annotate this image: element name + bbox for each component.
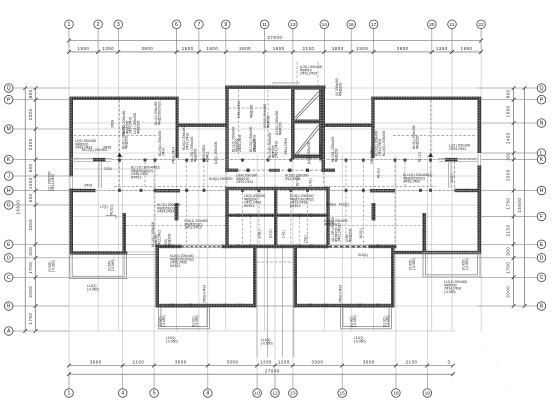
beam end columns [118, 159, 432, 307]
label stair strip d [237, 101, 241, 118]
label L12 center [261, 338, 273, 345]
label L10 stair strip f [275, 111, 282, 135]
label L1 right unit [450, 174, 454, 182]
svg-text:1: 1 [68, 22, 71, 28]
svg-text:(-0.050): (-0.050) [261, 341, 273, 345]
svg-text:2400: 2400 [505, 132, 510, 144]
label KL8(1) left room [170, 254, 194, 268]
svg-text:5: 5 [153, 391, 156, 397]
svg-text:1800: 1800 [206, 46, 218, 51]
label balcony B1 b [108, 259, 115, 271]
wall right room south [294, 304, 395, 308]
svg-text:1750: 1750 [505, 198, 510, 210]
svg-text:27600: 27600 [265, 369, 280, 374]
svg-text:13: 13 [290, 22, 296, 28]
svg-text:3Φ18: 3Φ18 [111, 120, 115, 128]
svg-text:2Φ14: 2Φ14 [161, 148, 165, 156]
label KL3 col3 [122, 110, 133, 134]
svg-text:2Φ12,2Φ12: 2Φ12,2Φ12 [158, 230, 162, 247]
label KL9 right band [324, 219, 348, 226]
svg-text:L4(1): L4(1) [282, 230, 286, 238]
label 2phi18 K [104, 167, 112, 171]
label KL14 rot right [331, 217, 342, 242]
svg-text:3300: 3300 [28, 219, 33, 231]
svg-text:N2Φ12: N2Φ12 [290, 204, 301, 208]
svg-text:L4(1): L4(1) [309, 178, 313, 186]
label KL14 rot left [151, 222, 162, 247]
svg-text:KL7(1): KL7(1) [296, 176, 300, 186]
svg-text:KL4(1): KL4(1) [377, 168, 381, 178]
svg-text:22: 22 [478, 22, 484, 28]
label L8 rot r [307, 141, 311, 164]
label stair strip b [253, 139, 257, 152]
label L5 corridor a [258, 230, 262, 238]
svg-text:Φ8@200: Φ8@200 [125, 136, 129, 149]
svg-text:6: 6 [175, 22, 178, 28]
svg-text:1950: 1950 [461, 46, 473, 51]
dashed beam L1 right [454, 161, 456, 188]
svg-text:(L8(1) 200x300: (L8(1) 200x300 [307, 141, 311, 164]
svg-text:KL8(1): KL8(1) [358, 253, 368, 257]
dimension ticks [23, 39, 526, 377]
svg-text:15: 15 [340, 391, 346, 397]
wall top-left exterior [70, 97, 179, 101]
svg-text:F: F [540, 214, 543, 220]
label 240 rot right [345, 229, 352, 242]
label KL7 H-row mid a [296, 176, 300, 186]
svg-text:2300: 2300 [28, 138, 33, 150]
svg-text:(-0.060): (-0.060) [412, 258, 416, 270]
svg-text:(-0.050): (-0.050) [354, 339, 366, 343]
label KL12 K-row left [82, 148, 107, 152]
svg-text:KL16(1) 200x300: KL16(1) 200x300 [382, 131, 386, 156]
label stair strip e [250, 105, 254, 118]
svg-text:KL1(1): KL1(1) [418, 152, 422, 162]
svg-text:(L8(1) 200x300: (L8(1) 200x300 [214, 141, 218, 164]
pier K-row right [445, 158, 458, 162]
svg-text:600: 600 [28, 193, 33, 202]
svg-text:2100: 2100 [132, 360, 144, 365]
label L12 balcony right [354, 336, 366, 343]
svg-text:2600: 2600 [239, 46, 251, 51]
svg-text:16600: 16600 [16, 200, 21, 215]
svg-text:L1(1): L1(1) [450, 174, 454, 182]
svg-text:1: 1 [68, 391, 71, 397]
svg-text:2Φ16,2Φ20: 2Φ16,2Φ20 [319, 145, 323, 162]
label stair strip c [284, 138, 288, 155]
svg-text:2Φ14,2Φ16: 2Φ14,2Φ16 [238, 135, 242, 152]
label KL10 rot br [319, 145, 323, 162]
label KL10 stair-left b [249, 127, 256, 152]
label L6(4) mid-left [236, 174, 257, 185]
svg-text:1950: 1950 [78, 46, 90, 51]
window gap E-row right [329, 245, 369, 249]
label L1 col6 [182, 126, 189, 150]
label balcony B2 a [159, 315, 166, 327]
svg-text:Φ8@200: Φ8@200 [167, 234, 171, 247]
svg-text:2Φ18,2Φ20: 2Φ18,2Φ20 [403, 180, 420, 184]
svg-text:2100: 2100 [303, 46, 315, 51]
svg-text:8: 8 [206, 391, 209, 397]
svg-text:E: E [540, 242, 544, 248]
svg-text:(-0.050): (-0.050) [195, 315, 199, 327]
wall D-row right [393, 251, 482, 254]
label KL5 rot right room [359, 228, 363, 238]
label KL14 stair [268, 133, 279, 158]
window gap E-row left [182, 245, 222, 249]
wall plateau left vertical [225, 86, 228, 172]
svg-text:、: 、 [480, 348, 485, 354]
dashed beam lines [73, 62, 477, 262]
wall D-row left [70, 251, 128, 254]
svg-text:Φ8@200: Φ8@200 [193, 149, 197, 162]
svg-text:P: P [540, 97, 544, 103]
svg-text:Φ8Φ200: Φ8Φ200 [266, 115, 270, 128]
svg-text:KL12(1) 200x300: KL12(1) 200x300 [82, 148, 107, 152]
label KL9(1) mid [290, 194, 314, 208]
svg-text:Φ8@100/200(3): Φ8@100/200(3) [157, 101, 161, 125]
label balcony B3 a [350, 315, 357, 327]
label 2phi18 rot r [370, 147, 374, 164]
svg-text:2000: 2000 [505, 169, 510, 181]
svg-text:14: 14 [322, 22, 328, 28]
svg-text:1700: 1700 [28, 313, 33, 325]
svg-text:B: B [540, 304, 544, 310]
svg-text:(-0.060): (-0.060) [51, 260, 55, 272]
svg-text:(-0.060): (-0.060) [465, 258, 469, 270]
corridor lines between rooms [99, 161, 451, 357]
svg-text:D: D [7, 256, 11, 262]
svg-text:Φ8@200: Φ8@200 [250, 105, 254, 118]
svg-text:3600: 3600 [90, 360, 102, 365]
label KL10 rot ar [331, 137, 338, 162]
svg-text:KL8(±): KL8(±) [326, 203, 336, 207]
svg-text:3600: 3600 [175, 360, 187, 365]
svg-text:300x350: 300x350 [253, 139, 257, 152]
wall step right vertical [371, 97, 374, 159]
label KL8 tiny right [326, 203, 336, 207]
wall mid-band center vertical [274, 187, 277, 248]
wall pier right (18) [422, 213, 426, 254]
wall mid-band shelf [225, 214, 329, 217]
svg-text:2Φ18: 2Φ18 [84, 184, 92, 188]
label L12 balcony left [166, 336, 178, 343]
label 2phi18 rot [172, 147, 176, 164]
svg-text:600: 600 [28, 163, 33, 172]
svg-text:2000: 2000 [505, 286, 510, 298]
svg-text:2Φ14,2Φ16: 2Φ14,2Φ16 [237, 101, 241, 118]
wall right room east [391, 245, 395, 308]
svg-text:Q: Q [539, 86, 543, 92]
svg-text:丶: 丶 [522, 248, 527, 254]
beam L6 blocks [246, 169, 309, 172]
wall E-row long [156, 245, 397, 248]
svg-text:16600: 16600 [517, 198, 522, 213]
svg-text:J: J [7, 174, 10, 180]
wall top-right exterior [371, 97, 481, 101]
svg-text:Φ8@200: Φ8@200 [348, 229, 352, 242]
wall plateau right vertical [322, 86, 325, 172]
svg-text:H: H [7, 188, 11, 194]
dimension numbers [16, 35, 522, 374]
svg-text:1900: 1900 [273, 46, 285, 51]
svg-text:P: P [7, 97, 11, 103]
svg-text:800: 800 [28, 89, 33, 98]
svg-text:2Φ14,2Φ18: 2Φ14,2Φ18 [284, 138, 288, 155]
svg-text:C: C [7, 275, 11, 281]
svg-text:2000: 2000 [28, 108, 33, 120]
label balcony B1 a [48, 260, 55, 272]
wall H-row piece d [455, 189, 479, 192]
label L3(1) top [300, 65, 323, 76]
svg-text:。: 。 [508, 384, 513, 390]
svg-text:7: 7 [197, 22, 200, 28]
label KL16 rot [158, 131, 165, 156]
svg-text:17: 17 [371, 22, 377, 28]
svg-text:L5(1): L5(1) [258, 230, 262, 238]
svg-text:300: 300 [505, 247, 510, 256]
svg-text:K: K [7, 157, 11, 163]
svg-text:KL8(1) 200x300: KL8(1) 200x300 [209, 177, 233, 181]
svg-text:Φ8@200: Φ8@200 [415, 136, 419, 149]
label KL5 left [110, 205, 114, 215]
label L4 corridor c [282, 230, 286, 238]
svg-text:(-0.050): (-0.050) [162, 315, 166, 327]
label balcony B2 b [192, 315, 199, 327]
svg-text:C: C [540, 275, 544, 281]
wall right room west [294, 245, 298, 308]
svg-text:13: 13 [290, 391, 296, 397]
svg-text:(-0.060): (-0.060) [111, 259, 115, 271]
svg-text:1200: 1200 [260, 360, 272, 365]
label KL6(1) right [339, 203, 349, 207]
svg-text:R4Φ12: R4Φ12 [131, 175, 142, 179]
svg-text:Φ8Φ200(2): Φ8Φ200(2) [324, 222, 341, 226]
beam line y169 left [71, 168, 135, 170]
wall pier left (4) [122, 213, 126, 254]
svg-text:KL5(1): KL5(1) [359, 228, 363, 238]
label 3phi18 [103, 146, 111, 150]
svg-text:1350: 1350 [436, 46, 448, 51]
balcony bottom-right (L12) [341, 307, 392, 329]
label L4 H-row mid b [309, 178, 313, 186]
label L10 stair strip a [263, 104, 270, 128]
staircase flights [294, 90, 319, 157]
svg-text:、: 、 [487, 401, 492, 407]
label L8 rot [214, 141, 218, 164]
label KL4 rot col18 [412, 125, 419, 149]
label KL10 rot a [190, 137, 197, 162]
wall notch left horizontal [176, 124, 229, 128]
svg-text:N: N [540, 121, 544, 127]
svg-text:(-0.050): (-0.050) [386, 315, 390, 327]
label L12 lower-right [444, 280, 467, 294]
wall pier right small [372, 203, 376, 221]
label KL16 rot r [382, 131, 386, 156]
svg-text:27600: 27600 [268, 35, 283, 40]
label 2phi18 H [84, 184, 92, 188]
svg-text:2Φ14,2Φ15: 2Φ14,2Φ15 [129, 117, 133, 134]
svg-text:300: 300 [28, 247, 33, 256]
svg-text:1500: 1500 [182, 46, 194, 51]
svg-text:3300: 3300 [227, 360, 239, 365]
svg-text:3300: 3300 [312, 360, 324, 365]
dimension lines [25, 41, 524, 375]
svg-text:2Φ18,2Φ14: 2Φ18,2Φ14 [172, 147, 176, 164]
svg-text:(-0.050): (-0.050) [166, 339, 178, 343]
svg-text:L7(1): L7(1) [100, 205, 108, 209]
svg-text:1500: 1500 [356, 46, 368, 51]
label KL8(1) right room [358, 253, 368, 257]
wall top middle plateau [225, 86, 326, 89]
svg-text:N2Φ12: N2Φ12 [244, 204, 255, 208]
label balcony B4 a [409, 258, 416, 270]
label KL12 big left [131, 166, 160, 180]
svg-text:N2Φ12: N2Φ12 [205, 151, 209, 162]
beam L6 mid dashes [238, 169, 322, 171]
balcony bottom-left (L12) [159, 307, 210, 329]
wall mid-band top (H row) [225, 187, 329, 190]
label KL4 rot col5 [154, 101, 161, 125]
svg-text:1200: 1200 [278, 360, 290, 365]
svg-text:1700: 1700 [505, 262, 510, 274]
svg-text:2: 2 [97, 22, 100, 28]
label balcony B3 b [383, 315, 390, 327]
label L5(3) mid [244, 194, 265, 208]
svg-text:3: 3 [448, 360, 451, 365]
wall mid-band left vertical [225, 187, 228, 248]
svg-text:N2Φ12: N2Φ12 [170, 264, 181, 268]
svg-text:800: 800 [505, 89, 510, 98]
wall stair landing [294, 120, 319, 123]
label KL7 left edge [48, 171, 55, 191]
svg-text:M: M [7, 127, 11, 133]
svg-text:18: 18 [393, 391, 399, 397]
svg-text:21: 21 [449, 22, 455, 28]
svg-text:Φ8@200: Φ8@200 [334, 149, 338, 162]
svg-text:1800: 1800 [332, 46, 344, 51]
balcony lower-right (L12) [423, 253, 480, 278]
label KL12 arrow right [403, 173, 432, 184]
svg-text:、: 、 [497, 364, 502, 370]
wall stair shaft right [320, 89, 323, 160]
svg-text:1400: 1400 [28, 177, 33, 189]
svg-text:3: 3 [117, 22, 120, 28]
window gap right wall K [477, 153, 481, 166]
label KL13 right unit [375, 131, 382, 156]
svg-text:2Φ18+1Φ14: 2Φ18+1Φ14 [339, 285, 343, 303]
svg-text:(-0.050): (-0.050) [353, 315, 357, 327]
svg-text:2Φ14,2Φ14: 2Φ14,2Φ14 [157, 210, 174, 214]
svg-text:2Φ12,2Φ12: 2Φ12,2Φ12 [185, 226, 202, 230]
svg-text:10: 10 [254, 391, 260, 397]
label L1 col3b [133, 113, 140, 134]
svg-text:2Φ12,2Φ12: 2Φ12,2Φ12 [338, 225, 342, 242]
wall notch right horizontal [322, 124, 375, 128]
svg-text:Φ8@200: Φ8@200 [136, 121, 140, 134]
label KL10 rot b [202, 145, 209, 162]
svg-text:4: 4 [121, 391, 124, 397]
wall left room west [156, 245, 160, 308]
label L2(1) right [449, 144, 470, 151]
svg-text:2000: 2000 [28, 286, 33, 298]
wall step left vertical [176, 97, 179, 159]
svg-text:(L1(1): (L1(1) [269, 229, 273, 238]
svg-text:(-0.050): (-0.050) [87, 287, 99, 291]
label KL8 K-row [209, 177, 233, 181]
svg-text:2Φ14,2Φ18: 2Φ14,2Φ18 [185, 133, 189, 150]
svg-text:2Φ14,2Φ18: 2Φ14,2Φ18 [275, 141, 279, 158]
label L5 right band [304, 235, 308, 243]
svg-text:2Φ14,2Φ12: 2Φ14,2Φ12 [51, 174, 55, 191]
label KL4 rot col4 [121, 125, 128, 149]
svg-text:(-0.050): (-0.050) [444, 290, 456, 294]
label balcony B4 b [462, 258, 469, 270]
label L5 corridor b [269, 229, 273, 238]
svg-text:2150: 2150 [505, 224, 510, 236]
svg-text:9: 9 [224, 22, 227, 28]
svg-text:KL5(1): KL5(1) [110, 205, 114, 215]
svg-text:2Φ18+1Φ14: 2Φ18+1Φ14 [203, 285, 207, 303]
svg-text:B: B [7, 304, 11, 310]
label L2(1) left [75, 139, 96, 150]
svg-text:D: D [540, 256, 544, 262]
wall left room east [253, 245, 257, 308]
wall H-row piece b [155, 189, 180, 192]
label KL4 right unit [377, 168, 381, 178]
label 240 rot left [164, 234, 171, 247]
svg-text:G: G [7, 203, 11, 209]
svg-text:K: K [540, 157, 544, 163]
svg-text:2Φ18,2Φ14: 2Φ18,2Φ14 [370, 147, 374, 164]
pier K-row left [93, 158, 106, 162]
svg-text:Φ8@200: Φ8@200 [338, 83, 342, 96]
svg-text:E: E [7, 242, 11, 248]
label KL6 left [185, 219, 209, 230]
wall stair shaft left [291, 89, 294, 160]
window gap left wall J-H [69, 177, 73, 189]
svg-text:19: 19 [425, 391, 431, 397]
svg-text:A: A [7, 329, 11, 335]
svg-text:12: 12 [272, 391, 278, 397]
wall H-row piece c [370, 189, 395, 192]
svg-text:1600: 1600 [505, 105, 510, 117]
label 2phi18 left [203, 285, 207, 303]
label 3phi18 rot col3 [111, 120, 115, 128]
label KL7(1) left [157, 203, 181, 214]
svg-text:16: 16 [349, 22, 355, 28]
svg-text:H: H [540, 188, 544, 194]
svg-text:11: 11 [262, 22, 267, 28]
svg-text:2Φ14,2Φ14: 2Φ14,2Φ14 [449, 147, 466, 151]
label KL5 mid-right [285, 174, 309, 181]
label K3 top rot [335, 78, 342, 96]
label 2phi18 right [339, 285, 343, 303]
faint watermark marks [480, 248, 527, 407]
balcony lower-left (L12) [70, 255, 127, 279]
svg-text:L5(1): L5(1) [304, 235, 308, 243]
svg-text:20: 20 [429, 22, 435, 28]
svg-text:3900: 3900 [397, 46, 409, 51]
svg-text:1350: 1350 [102, 46, 114, 51]
svg-text:2100: 2100 [406, 360, 418, 365]
window D-row left [127, 252, 155, 254]
wall stair shaft bottom [291, 155, 323, 159]
svg-text:3600: 3600 [363, 360, 375, 365]
section triangle col17 [428, 153, 433, 158]
label KL11 stair-left a [232, 127, 243, 152]
label L12 lower-left [87, 284, 99, 291]
